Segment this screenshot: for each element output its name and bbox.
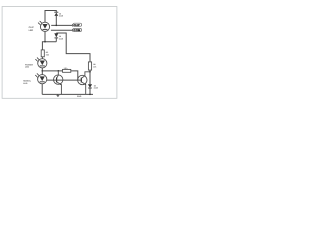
- svg-text:LED: LED: [23, 82, 28, 85]
- LED D4 arrow 2: [35, 59, 37, 61]
- svg-text:3k3: 3k3: [46, 54, 49, 57]
- LED D4 POWER LED circle: [38, 59, 47, 68]
- wire R1 to POWER LED: [41, 57, 43, 59]
- junction dot Q2 collector node: [89, 71, 91, 73]
- LED D4 cathode bar: [40, 65, 45, 67]
- LED D5 triangle: [40, 76, 45, 81]
- transistor Q2 base bar: [80, 78, 82, 83]
- svg-text:COM: COM: [74, 29, 81, 32]
- junction dot Q1 collector tap: [58, 70, 60, 72]
- resistor R1 body: [41, 50, 44, 57]
- wire horizontal node to resistor R1: [42, 42, 56, 50]
- svg-text:GND: GND: [77, 95, 82, 98]
- Q1 emitter arrowhead: [60, 84, 62, 86]
- LED D5 SIGNAL LED circle: [38, 75, 47, 84]
- LED D3 cathode bar: [43, 28, 48, 30]
- wire POWER LED cathode to node X: [41, 68, 43, 75]
- svg-text:CLIP: CLIP: [74, 24, 80, 27]
- LED D3 arrow 2: [38, 22, 40, 24]
- ground symbol: [57, 94, 60, 96]
- transistor Q2 circle: [78, 75, 87, 84]
- wire SIGNAL LED cathode to ground rail: [41, 84, 43, 95]
- wire Q1 emitter: [57, 82, 62, 94]
- pad terminal 2: [72, 28, 81, 32]
- wire Q1 base from SIGNAL LED: [47, 79, 81, 81]
- transistor Q1 base bar: [56, 77, 58, 82]
- transistor Q1 circle: [54, 75, 63, 84]
- diode D1 triangle: [54, 33, 58, 37]
- wire CLIP LED anode up and across: [45, 11, 56, 23]
- wire R4 down to D6: [89, 70, 91, 84]
- svg-text:LED: LED: [25, 66, 30, 69]
- junction dot D2/pad1 wire: [56, 25, 58, 27]
- svg-text:LED: LED: [29, 29, 34, 32]
- wire D2 anode down to node: [55, 16, 57, 25]
- svg-text:47k: 47k: [93, 65, 97, 68]
- wire Q2 collector: [81, 72, 90, 78]
- junction dot rail at D6: [89, 94, 91, 96]
- diode D1 cathode bar: [55, 37, 59, 39]
- wire Q2 emitter: [81, 82, 85, 94]
- resistor R4 body: [88, 62, 91, 70]
- wire D6 cathode to rail: [89, 88, 91, 94]
- LED D3 CLIP LED circle: [40, 22, 49, 31]
- diode D6 cathode bar: [88, 87, 92, 89]
- junction dot node X: [42, 70, 44, 72]
- wire Q1 collector: [57, 71, 59, 78]
- wire net to pad 1: [51, 24, 72, 26]
- wire R3 to Q2 base: [71, 71, 78, 80]
- LED D5 cathode bar: [40, 81, 45, 83]
- LED D5 arrow 1: [37, 73, 39, 75]
- wire D1 cathode down: [55, 38, 57, 42]
- wire net to pad 2: [51, 29, 73, 31]
- diode D6 triangle: [88, 84, 92, 87]
- svg-text:4148: 4148: [94, 87, 98, 90]
- wire D1 anode to resistor chain: [56, 33, 90, 62]
- LED D3 arrow 1: [39, 21, 41, 23]
- svg-text:10k: 10k: [64, 67, 69, 70]
- svg-text:4148: 4148: [59, 14, 63, 17]
- wire ground rail: [42, 93, 93, 95]
- LED D3 triangle: [42, 24, 47, 29]
- svg-text:4148: 4148: [59, 37, 63, 40]
- wire CLIP LED cathode down: [44, 31, 46, 41]
- junction dot CLIP cathode node: [44, 41, 46, 43]
- LED D5 arrow 2: [35, 75, 37, 77]
- border frame: [2, 7, 117, 99]
- svg-text:CLIP: CLIP: [29, 26, 35, 29]
- Q2 emitter arrowhead: [84, 83, 86, 85]
- LED D4 triangle: [40, 61, 45, 66]
- pad terminal 1: [72, 23, 81, 27]
- diode D2 triangle: [54, 13, 58, 16]
- LED D4 arrow 1: [37, 57, 39, 59]
- diode D2 cathode bar: [54, 11, 58, 13]
- resistor R3 body: [63, 69, 71, 72]
- wire node X to resistor R3: [42, 70, 62, 72]
